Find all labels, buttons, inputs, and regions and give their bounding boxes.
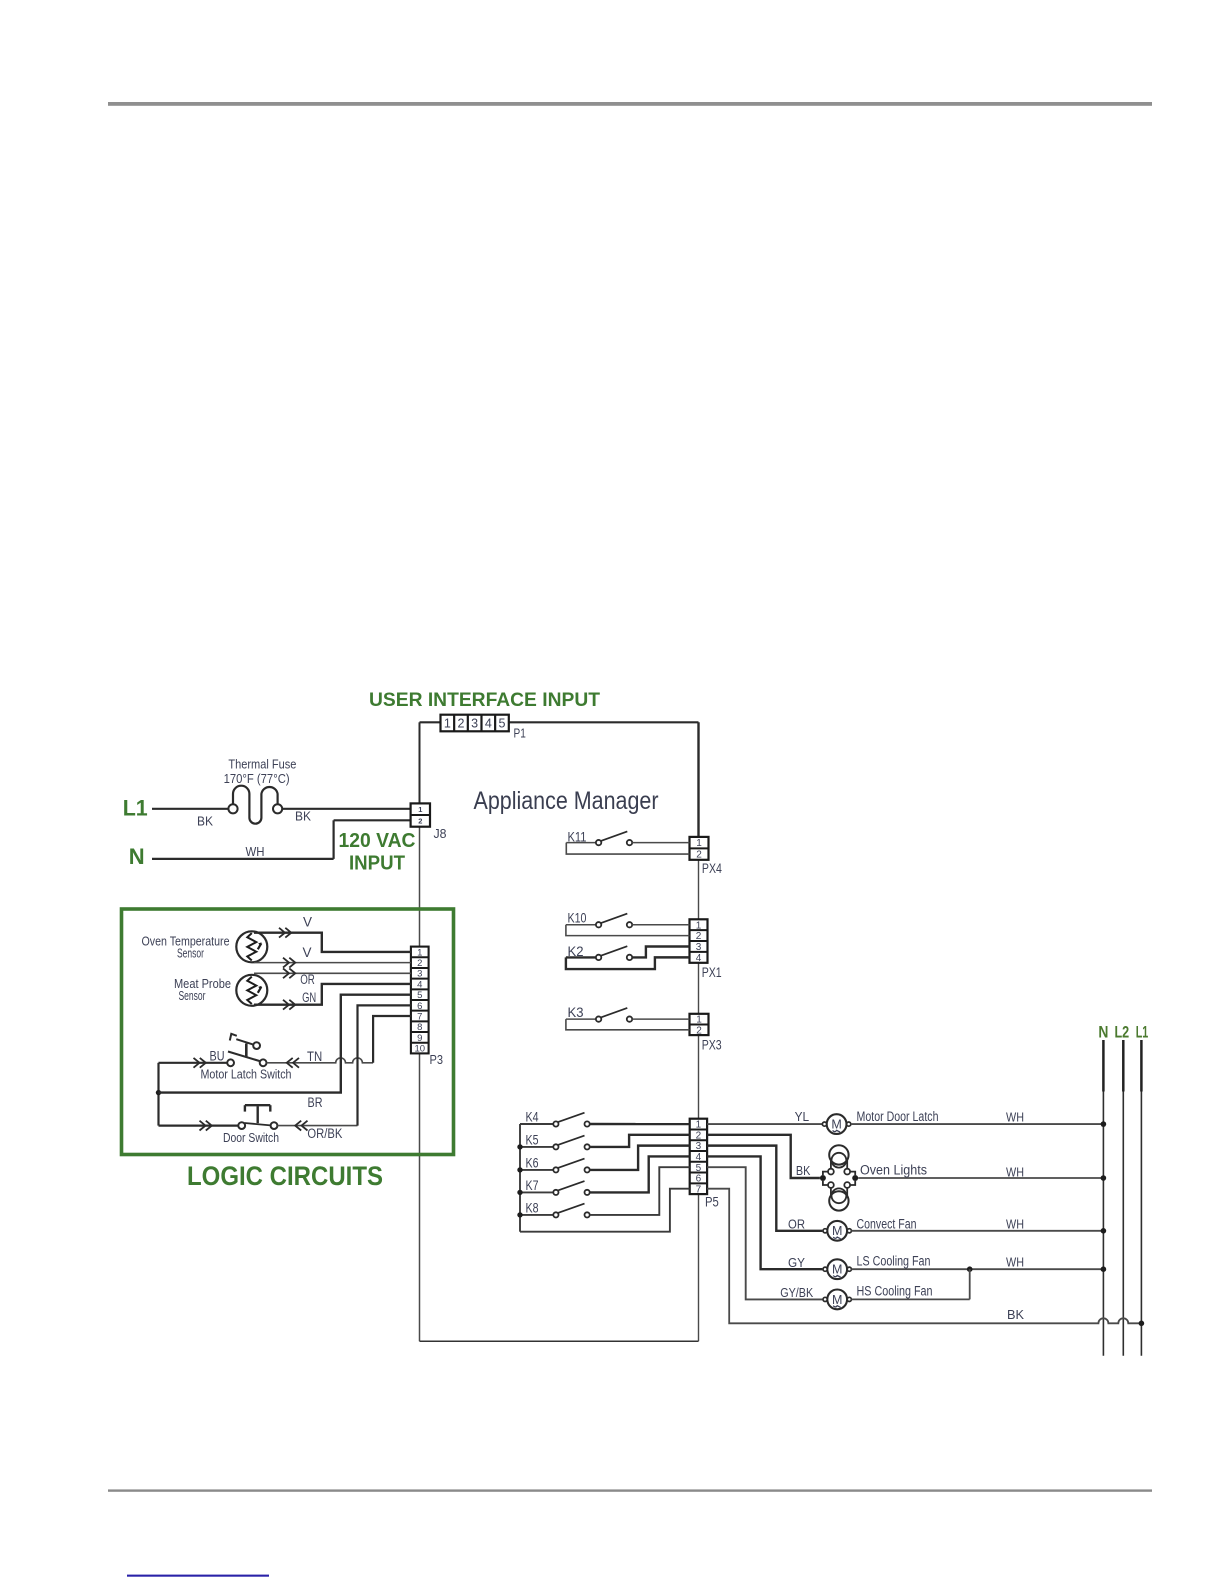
svg-text:Motor Latch Switch: Motor Latch Switch: [201, 1067, 292, 1082]
svg-text:120 VAC: 120 VAC: [339, 830, 416, 852]
svg-text:USER INTERFACE INPUT: USER INTERFACE INPUT: [369, 689, 600, 711]
svg-text:WH: WH: [1006, 1216, 1024, 1231]
svg-text:2: 2: [696, 1025, 702, 1036]
svg-text:1: 1: [444, 717, 451, 731]
svg-text:WH: WH: [1006, 1109, 1024, 1124]
svg-text:Oven Lights: Oven Lights: [860, 1163, 927, 1178]
svg-text:BK: BK: [796, 1163, 811, 1178]
svg-text:BK: BK: [295, 809, 311, 824]
svg-text:K11: K11: [568, 830, 587, 845]
svg-text:M: M: [832, 1263, 842, 1277]
svg-text:WH: WH: [246, 844, 265, 859]
svg-text:Door Switch: Door Switch: [223, 1130, 279, 1145]
svg-text:2: 2: [458, 717, 465, 731]
svg-text:1: 1: [418, 805, 422, 814]
svg-text:4: 4: [696, 953, 702, 964]
svg-text:P3: P3: [430, 1052, 444, 1067]
svg-text:PX3: PX3: [702, 1037, 722, 1052]
svg-text:WH: WH: [1006, 1255, 1024, 1270]
svg-text:P5: P5: [705, 1195, 719, 1210]
svg-text:BK: BK: [1007, 1307, 1024, 1322]
svg-text:2: 2: [696, 850, 702, 861]
svg-text:Sensor: Sensor: [177, 946, 204, 961]
svg-text:170°F (77°C): 170°F (77°C): [224, 771, 290, 786]
svg-text:K8: K8: [526, 1201, 539, 1216]
svg-text:HS Cooling Fan: HS Cooling Fan: [857, 1284, 933, 1299]
svg-text:M: M: [832, 1293, 842, 1307]
svg-text:OR/BK: OR/BK: [307, 1126, 342, 1141]
svg-text:YL: YL: [795, 1109, 810, 1124]
svg-text:N: N: [129, 844, 145, 869]
svg-text:BK: BK: [197, 814, 213, 829]
svg-text:M: M: [831, 1117, 841, 1131]
svg-text:K7: K7: [526, 1178, 539, 1193]
svg-text:BU: BU: [210, 1048, 225, 1063]
svg-text:L2: L2: [1114, 1023, 1129, 1042]
svg-text:Convect Fan: Convect Fan: [857, 1217, 917, 1232]
svg-text:PX1: PX1: [702, 965, 722, 980]
svg-text:K2: K2: [568, 944, 584, 959]
svg-text:L1: L1: [123, 796, 148, 821]
svg-text:2: 2: [418, 817, 422, 826]
svg-text:K10: K10: [568, 911, 587, 926]
svg-text:J8: J8: [434, 826, 447, 841]
svg-text:OR: OR: [300, 972, 315, 987]
svg-text:4: 4: [485, 717, 492, 731]
svg-text:V: V: [302, 945, 311, 960]
svg-text:Sensor: Sensor: [179, 988, 206, 1003]
svg-text:LOGIC CIRCUITS: LOGIC CIRCUITS: [187, 1161, 383, 1191]
svg-text:Appliance Manager: Appliance Manager: [474, 787, 659, 815]
svg-text:PX4: PX4: [702, 861, 722, 876]
svg-text:K4: K4: [526, 1110, 539, 1125]
svg-text:K5: K5: [526, 1133, 539, 1148]
svg-text:K3: K3: [568, 1005, 584, 1020]
svg-text:WH: WH: [1006, 1164, 1024, 1179]
svg-text:Motor Door Latch: Motor Door Latch: [857, 1109, 939, 1124]
svg-text:10: 10: [414, 1043, 425, 1054]
svg-text:GY: GY: [788, 1255, 805, 1270]
svg-text:GY/BK: GY/BK: [780, 1285, 813, 1300]
svg-text:3: 3: [471, 717, 478, 731]
svg-text:TN: TN: [307, 1049, 322, 1064]
svg-text:Thermal Fuse: Thermal Fuse: [228, 757, 296, 772]
svg-text:L1: L1: [1136, 1023, 1149, 1042]
svg-text:P1: P1: [514, 726, 526, 741]
svg-text:BR: BR: [308, 1095, 323, 1110]
svg-text:5: 5: [498, 717, 505, 731]
svg-text:LS Cooling Fan: LS Cooling Fan: [857, 1253, 931, 1268]
svg-text:7: 7: [696, 1184, 702, 1195]
svg-text:M: M: [832, 1224, 842, 1238]
svg-text:V: V: [303, 914, 312, 929]
svg-text:GN: GN: [302, 990, 316, 1005]
svg-text:K6: K6: [526, 1156, 539, 1171]
svg-text:N: N: [1098, 1023, 1108, 1042]
svg-text:OR: OR: [788, 1217, 805, 1232]
svg-text:INPUT: INPUT: [349, 853, 405, 875]
